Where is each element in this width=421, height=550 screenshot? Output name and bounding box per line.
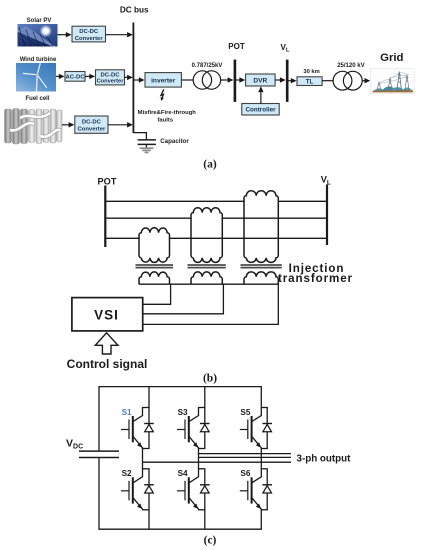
- wire DC bus to capacitor: [133, 133, 146, 140]
- wire leg 2 upper-lower jog: [198, 448, 206, 450]
- svg-text:AC-DC: AC-DC: [66, 74, 86, 80]
- wire leg 2 lower junction jog: [198, 509, 206, 511]
- injection transformer T1 secondary winding: [139, 272, 170, 284]
- injection transformer T2 secondary winding: [191, 272, 222, 284]
- wire DC bus vertical: [132, 23, 134, 134]
- injection transformer T3 core: [241, 264, 282, 266]
- transistor S2 (IGBT): [133, 469, 142, 483]
- svg-text:transformer: transformer: [278, 272, 353, 285]
- injection transformer T3 primary winding: [244, 191, 278, 202]
- wire phase line 3 right: [170, 237, 328, 239]
- ground: [140, 147, 154, 149]
- svg-text:TL: TL: [306, 79, 314, 86]
- wire leg 1 to bottom rail: [148, 510, 150, 529]
- wire POT bar to DVR: [236, 79, 241, 81]
- fault lightning bolt: [161, 89, 164, 99]
- wire leg 1 midpoint: [142, 448, 144, 469]
- wire leg 3 to bottom rail: [260, 510, 262, 529]
- AC-DC converter box: [65, 72, 85, 82]
- svg-text:POT: POT: [228, 42, 245, 51]
- svg-text:30 km: 30 km: [303, 69, 319, 75]
- wire leg 2 upper junction jog: [198, 407, 206, 409]
- svg-text:Converter: Converter: [75, 36, 104, 42]
- wire VSI phase C lead: [143, 284, 279, 324]
- wire T2 to grid: [362, 80, 366, 82]
- wire fuel cell to DC-DC converter: [62, 124, 70, 126]
- svg-text:Converter: Converter: [97, 79, 125, 85]
- svg-text:Solar PV: Solar PV: [27, 18, 52, 24]
- diode D1: [148, 408, 150, 449]
- wire VL bar to TL: [289, 80, 293, 82]
- wire leg 3 upper-lower jog: [261, 448, 268, 450]
- wire leg 1 upper junction jog: [142, 407, 150, 409]
- wire left DC rail upper: [98, 387, 100, 451]
- svg-text:S1: S1: [122, 408, 132, 417]
- svg-text:DC bus: DC bus: [120, 5, 149, 14]
- wire secondary common bus: [139, 283, 278, 285]
- transformer T2 25/120 kV: [333, 71, 362, 90]
- wire leg 1 lower junction jog: [142, 509, 150, 511]
- svg-text:Grid: Grid: [380, 52, 403, 64]
- wire leg 3 lower junction jog: [261, 509, 268, 511]
- node VL bus bar (section b): [326, 185, 328, 246]
- injection transformer T3 secondary winding: [244, 272, 278, 284]
- injection transformer T1 core: [136, 264, 174, 266]
- node POT bus bar: [234, 60, 237, 102]
- solar PV panel image: [18, 24, 58, 47]
- DC-DC converter (solar): [72, 26, 106, 42]
- svg-text:(a): (a): [203, 158, 217, 170]
- svg-text:Fuel cell: Fuel cell: [25, 96, 49, 102]
- svg-text:(c): (c): [204, 534, 217, 546]
- wire wind turbine to AC-DC: [56, 75, 61, 77]
- svg-text:(b): (b): [203, 372, 217, 384]
- wire leg 1 upper-lower jog: [142, 448, 150, 450]
- wire T1 to POT bar: [221, 79, 230, 81]
- controller box: [242, 104, 279, 116]
- wire bottom DC rail: [98, 528, 262, 530]
- capacitor CDC plates: [79, 450, 119, 452]
- wire top rail to leg 1: [148, 387, 150, 408]
- svg-text:inverter: inverter: [151, 77, 176, 84]
- node VL bus bar: [286, 60, 289, 102]
- svg-text:0.787/25kV: 0.787/25kV: [192, 63, 223, 69]
- wire left DC rail lower: [98, 458, 100, 529]
- inverter box: [145, 73, 181, 88]
- transistor S5 (IGBT): [252, 408, 261, 422]
- transistor S1 (IGBT): [133, 408, 142, 422]
- svg-text:S5: S5: [240, 408, 250, 417]
- capacitor Cdc plates: [138, 139, 156, 141]
- wire top rail to leg 3: [260, 387, 262, 408]
- DC-DC converter (wind): [96, 70, 125, 85]
- wire controller to DVR: [260, 90, 262, 103]
- transistor S4 (IGBT): [189, 469, 198, 483]
- injection transformer T2 core: [188, 264, 226, 266]
- wire phase line 2 left: [105, 217, 191, 219]
- wire phase line 1 left: [105, 200, 244, 202]
- wire top DC rail: [98, 386, 262, 388]
- wire phase line 3 left: [105, 237, 139, 239]
- wire leg 2 midpoint: [198, 448, 200, 469]
- svg-text:25/120 kV: 25/120 kV: [337, 63, 364, 69]
- svg-text:Capacitor: Capacitor: [160, 138, 189, 145]
- diode D6: [261, 468, 268, 470]
- diode D3: [204, 408, 206, 449]
- wire 3-phase output B: [199, 456, 292, 458]
- wire 3-phase output A: [143, 461, 292, 463]
- DC-DC converter (fuel cell): [75, 116, 108, 133]
- control signal arrow: [95, 333, 118, 354]
- wire phase line 1 right: [278, 200, 327, 202]
- injection transformer T1 primary winding: [139, 228, 170, 239]
- node POT bus bar (section b): [104, 186, 106, 248]
- injection transformer T2 primary winding: [191, 208, 222, 219]
- wire leg 2 to bottom rail: [204, 510, 206, 529]
- transistor S6 (IGBT): [252, 469, 261, 483]
- wire DC bus to inverter: [133, 79, 140, 81]
- grid image (city with pylons): [371, 69, 415, 94]
- wire DVR to VL bar: [275, 79, 282, 81]
- svg-text:S2: S2: [122, 469, 132, 478]
- diode D2: [142, 468, 150, 470]
- wire wind converter to DC bus: [125, 76, 129, 78]
- svg-text:Control signal: Control signal: [67, 357, 148, 371]
- wire TL to transformer T2: [322, 80, 333, 82]
- svg-text:S4: S4: [178, 469, 188, 478]
- TL transmission line box: [297, 77, 322, 86]
- wire leg 3 midpoint: [260, 448, 262, 469]
- svg-text:DC-DC: DC-DC: [82, 120, 102, 126]
- svg-text:S3: S3: [178, 408, 188, 417]
- diode D4: [198, 468, 206, 470]
- DVR box: [246, 74, 276, 86]
- wire top rail to leg 2: [204, 387, 206, 408]
- svg-text:Converter: Converter: [77, 127, 106, 133]
- svg-text:DC-DC: DC-DC: [79, 29, 99, 35]
- svg-text:DC-DC: DC-DC: [101, 72, 121, 78]
- wire AC-DC to DC-DC converter: [85, 75, 91, 77]
- wind turbine image: [16, 63, 56, 92]
- fuel cell image: [5, 109, 63, 145]
- wire leg 3 upper junction jog: [261, 407, 268, 409]
- svg-text:S6: S6: [240, 469, 250, 478]
- transformer T1 0.787/25kV: [193, 71, 221, 89]
- wire solar panel to DC-DC converter: [58, 34, 68, 36]
- wire phase line 2 right: [222, 217, 327, 219]
- svg-text:Controller: Controller: [245, 107, 276, 114]
- wire VSI phase B lead: [143, 284, 224, 314]
- svg-text:DVR: DVR: [253, 78, 267, 85]
- wire fuel converter to DC bus: [108, 124, 129, 126]
- svg-text:Wind turbine: Wind turbine: [20, 57, 57, 63]
- wire VSI phase A lead: [143, 284, 171, 304]
- VSI box: [72, 298, 143, 331]
- svg-text:3-ph output: 3-ph output: [297, 454, 352, 465]
- diode D5: [266, 408, 268, 449]
- svg-text:faults: faults: [157, 117, 173, 123]
- wire solar converter to DC bus: [106, 34, 129, 36]
- wire 3-phase output C: [199, 453, 292, 455]
- wire inverter to transformer T1: [181, 79, 193, 81]
- svg-text:POT: POT: [98, 176, 117, 186]
- transistor S3 (IGBT): [189, 408, 198, 422]
- svg-text:Misfire&Fire-through: Misfire&Fire-through: [138, 110, 197, 116]
- svg-text:VSI: VSI: [94, 308, 119, 323]
